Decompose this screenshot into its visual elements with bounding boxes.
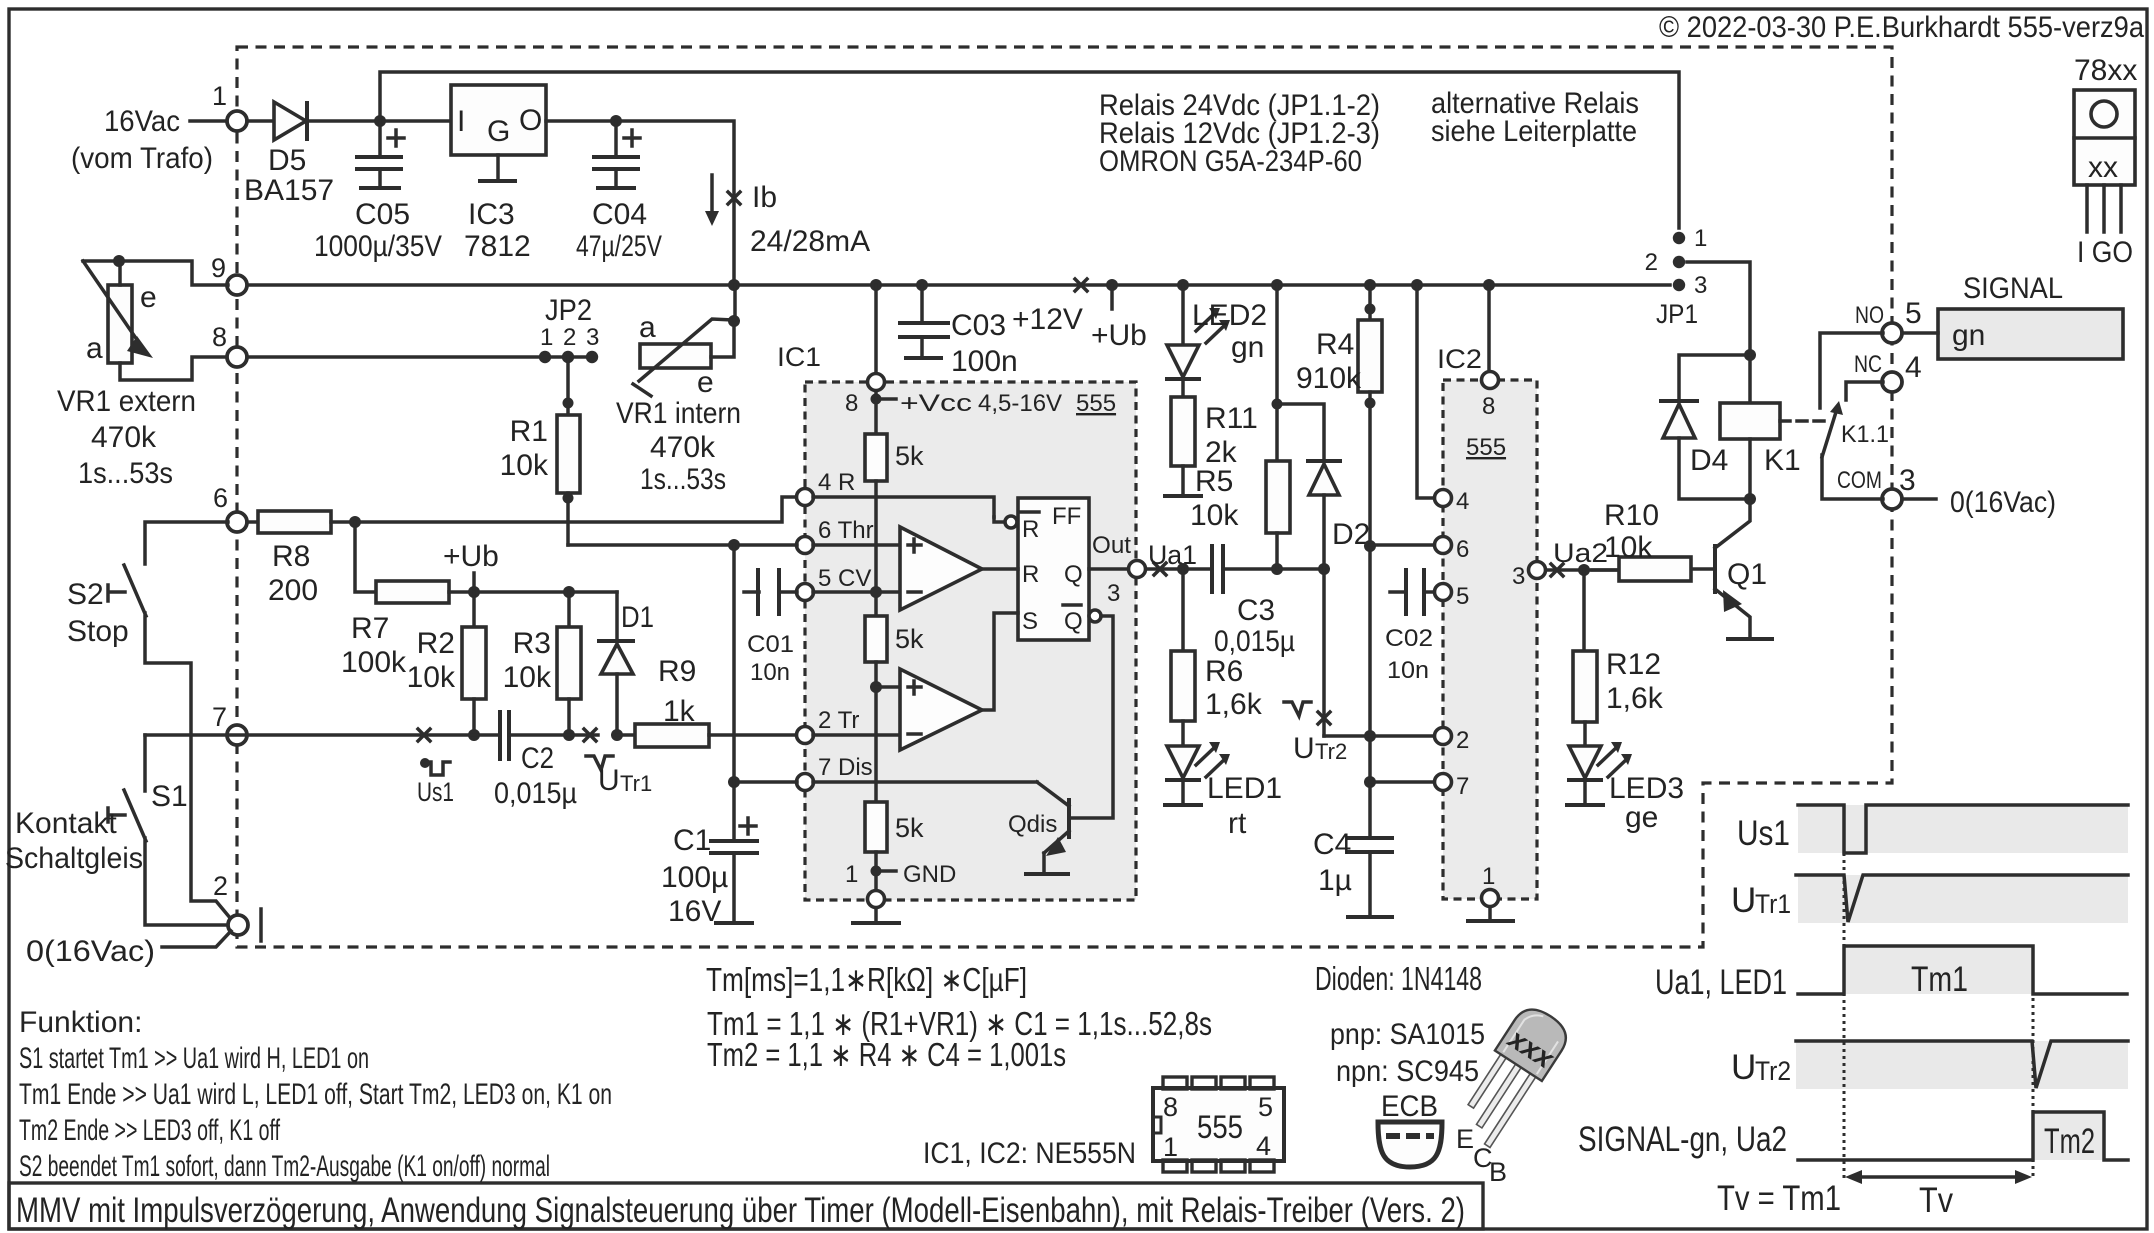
svg-text:4,5-16V: 4,5-16V [978, 390, 1062, 417]
pin 2 of IC2 [1435, 728, 1452, 745]
svg-text:Tr1: Tr1 [620, 771, 652, 796]
trace UTr1 [1796, 875, 2128, 922]
svg-text:C04: C04 [592, 198, 647, 231]
svg-text:C1: C1 [673, 824, 711, 857]
trace Ua1/LED1 [1798, 946, 2127, 994]
svg-text:C01: C01 [747, 631, 794, 658]
svg-text:I GO: I GO [2077, 236, 2133, 269]
symbol UTr2 pulse [1284, 702, 1311, 716]
svg-text:VR1 intern: VR1 intern [616, 397, 741, 430]
junction C05/top [374, 115, 386, 127]
wire COM to 0(16Vac) [1902, 497, 1936, 501]
LED3 [1569, 746, 1601, 778]
svg-text:1: 1 [845, 861, 858, 888]
ground below IC1 pin1 [874, 908, 878, 921]
svg-text:78xx: 78xx [2074, 54, 2137, 87]
svg-text:2: 2 [563, 324, 576, 351]
svg-text:R6: R6 [1205, 655, 1243, 688]
svg-text:Us1: Us1 [417, 777, 454, 807]
resistor R9 [617, 733, 635, 737]
node +12V marker [1075, 279, 1087, 291]
svg-text:10n: 10n [750, 659, 790, 686]
svg-text:Ib: Ib [752, 181, 777, 214]
terminal 2 [228, 915, 248, 935]
svg-text:a: a [86, 332, 103, 365]
arrow Tv span [1858, 1175, 2019, 1179]
terminal 9 [227, 275, 247, 295]
node UTr1 probe mark [584, 729, 596, 741]
node Us1 probe mark [418, 729, 430, 741]
capacitor C03 [920, 285, 924, 321]
junction C04 [610, 115, 622, 127]
resistor R1 [566, 357, 570, 415]
svg-text:555: 555 [1197, 1109, 1243, 1145]
svg-text:D1: D1 [621, 601, 654, 634]
resistor R5 [1275, 285, 1279, 461]
resistor R4 [1368, 285, 1372, 320]
svg-text:470k: 470k [91, 421, 157, 454]
svg-text:Tm1: Tm1 [1911, 960, 1968, 999]
svg-text:1µ: 1µ [1318, 864, 1352, 897]
svg-text:gn: gn [1952, 319, 1985, 352]
svg-text:(vom Trafo): (vom Trafo) [71, 142, 213, 175]
svg-text:1: 1 [212, 81, 227, 111]
capacitor C1 [732, 545, 736, 840]
regulator IC3 [451, 85, 546, 155]
svg-text:1000µ/35V: 1000µ/35V [314, 230, 442, 263]
svg-text:Dioden: 1N4148: Dioden: 1N4148 [1315, 960, 1482, 997]
svg-text:Ua2: Ua2 [1553, 538, 1608, 568]
svg-text:5k: 5k [895, 441, 924, 471]
svg-text:2: 2 [1645, 249, 1658, 276]
pin 2 Tr of IC1 [797, 727, 814, 744]
svg-text:0,015µ: 0,015µ [494, 777, 577, 810]
svg-text:Tm[ms]=1,1∗R[kΩ] ∗C[µF]: Tm[ms]=1,1∗R[kΩ] ∗C[µF] [706, 961, 1027, 998]
dotted time marker 1 [1843, 853, 1846, 1180]
capacitor C05 [378, 121, 382, 155]
relay coil K1 [1720, 403, 1780, 439]
svg-text:U: U [598, 764, 620, 797]
svg-text:S: S [1022, 608, 1038, 635]
node +Ub at R7 [468, 586, 480, 598]
svg-text:JP2: JP2 [545, 294, 592, 327]
svg-text:ECB: ECB [1381, 1090, 1438, 1123]
wire terminal 6 left to S2 [145, 522, 228, 564]
terminal 8 [227, 347, 247, 367]
svg-text:7: 7 [212, 702, 227, 732]
capacitor C2 [500, 712, 509, 759]
trace Us1 [1798, 805, 2128, 853]
op-amp comparator lower (IC1) [900, 669, 982, 750]
svg-text:1k: 1k [663, 695, 696, 728]
resistor R12 [1582, 570, 1586, 651]
svg-text:3: 3 [1694, 272, 1707, 299]
svg-text:S2: S2 [67, 578, 104, 611]
svg-text:+Ub: +Ub [1091, 319, 1147, 352]
title bar box [9, 1183, 1483, 1229]
pin 4 R of IC1 [797, 489, 814, 506]
svg-text:COM: COM [1837, 467, 1882, 494]
svg-text:S1: S1 [151, 780, 188, 813]
svg-text:R8: R8 [272, 540, 310, 573]
svg-text:4: 4 [1905, 351, 1922, 384]
terminal 7 [227, 725, 247, 745]
diode D2 [1277, 404, 1324, 461]
wire +12V/+Ub rail [238, 283, 1670, 287]
svg-text:555: 555 [1076, 390, 1116, 417]
svg-text:1s...53s: 1s...53s [78, 457, 173, 490]
svg-text:100µ: 100µ [661, 861, 728, 894]
svg-text:3: 3 [1512, 563, 1525, 590]
svg-text:G: G [487, 115, 510, 148]
svg-text:NO: NO [1855, 302, 1884, 329]
pin 4 of IC2 [1417, 285, 1434, 498]
svg-text:+12V: +12V [1012, 303, 1083, 336]
svg-text:R9: R9 [658, 655, 696, 688]
svg-text:R11: R11 [1205, 402, 1258, 435]
svg-text:4 R: 4 R [818, 469, 855, 496]
transistor TO-92 3D drawing [1449, 1001, 1574, 1151]
svg-text:IC3: IC3 [468, 198, 515, 231]
wire comparator2 out to S [982, 613, 1018, 710]
svg-text:C4: C4 [1313, 828, 1351, 861]
svg-text:LED1: LED1 [1207, 772, 1282, 805]
svg-text:5: 5 [1456, 583, 1469, 610]
svg-text:I: I [457, 105, 465, 138]
timing diagram gray bands [1798, 805, 2128, 853]
resistor R11 [1171, 397, 1195, 466]
resistor R3 [563, 586, 575, 598]
capacitor C04 [614, 121, 618, 155]
svg-text:6 Thr: 6 Thr [818, 517, 874, 544]
svg-text:GND: GND [903, 861, 956, 888]
svg-text:Q: Q [1064, 608, 1083, 635]
svg-text:7: 7 [1456, 773, 1469, 800]
svg-text:Out: Out [1092, 532, 1131, 559]
svg-text:470k: 470k [650, 431, 716, 464]
svg-text:siehe Leiterplatte: siehe Leiterplatte [1431, 115, 1637, 148]
svg-text:K1.1: K1.1 [1841, 421, 1889, 448]
svg-text:C05: C05 [355, 198, 410, 231]
svg-text:gn: gn [1231, 331, 1264, 364]
svg-text:5 CV: 5 CV [818, 565, 871, 592]
svg-text:npn: SC945: npn: SC945 [1336, 1055, 1479, 1088]
svg-text:C2: C2 [521, 742, 554, 775]
svg-text:e: e [697, 366, 714, 399]
diode D4 [1679, 355, 1750, 401]
op-amp comparator upper (IC1) [900, 527, 982, 610]
PCB dashed border [237, 47, 1892, 947]
wire D2 bottom to IC2 pin2 [1324, 734, 1434, 738]
svg-text:47µ/25V: 47µ/25V [576, 230, 662, 263]
trace SIGNAL-gn/Ua2 [1798, 1112, 2128, 1160]
wire to JP1 (unregulated top line) [380, 72, 1679, 228]
svg-text:1: 1 [540, 324, 553, 351]
svg-text:SIGNAL: SIGNAL [1963, 272, 2063, 305]
current arrow Ib [710, 175, 714, 212]
wire NO to gn box [1902, 331, 1938, 335]
svg-text:Funktion:: Funktion: [19, 1006, 142, 1039]
op-amp/timer IC1 555 box [805, 382, 1136, 900]
pin 6 Thr of IC1 [797, 537, 814, 554]
connector JP1 [1673, 232, 1685, 244]
svg-text:0,015µ: 0,015µ [1214, 625, 1295, 658]
pin 8 +Vcc of IC1 [874, 285, 878, 374]
node rail junction dots [728, 279, 740, 291]
wire trigger row (terminal7 to C2) [145, 733, 500, 737]
svg-text:8: 8 [1163, 1092, 1178, 1122]
wire IC3 output to C04 and down to rail [546, 121, 734, 285]
svg-text:Q: Q [1064, 561, 1083, 588]
node Ua1 [1146, 567, 1212, 571]
potentiometer VR1 intern [640, 344, 711, 368]
svg-text:E: E [1456, 1124, 1474, 1154]
svg-text:4: 4 [1256, 1131, 1271, 1161]
svg-text:+Vcc: +Vcc [900, 390, 972, 417]
svg-text:555: 555 [1466, 434, 1506, 461]
wire JP1 pin2 to relay [1687, 262, 1750, 403]
svg-text:Tm2 = 1,1 ∗ R4 ∗ C4 = 1,001s: Tm2 = 1,1 ∗ R4 ∗ C4 = 1,001s [707, 1036, 1066, 1073]
svg-text:Tr2: Tr2 [1315, 739, 1347, 764]
resistor R8 [247, 520, 258, 524]
svg-text:R4: R4 [1316, 328, 1354, 361]
svg-text:10k: 10k [503, 661, 552, 694]
svg-text:U: U [1731, 1048, 1756, 1087]
svg-text:xx: xx [2088, 151, 2118, 184]
symbol UTr1 pulse [586, 756, 613, 770]
svg-text:1: 1 [1482, 863, 1495, 890]
svg-text:5k: 5k [895, 813, 924, 843]
svg-text:rt: rt [1228, 807, 1247, 840]
svg-text:R2: R2 [417, 627, 455, 660]
LED2 [1181, 285, 1185, 345]
svg-text:0(16Vac): 0(16Vac) [1950, 486, 2056, 519]
node +Ub stub [1110, 285, 1114, 309]
svg-text:K1: K1 [1764, 444, 1801, 477]
svg-text:R7: R7 [351, 612, 389, 645]
pin 7 of IC2 [1435, 774, 1452, 791]
potentiometer VR1 extern [108, 285, 132, 363]
pin 8 of IC2 [1487, 285, 1491, 371]
wire terminal1 to D5 [247, 119, 273, 123]
svg-text:S2 beendet Tm1 sofort, dann Tm: S2 beendet Tm1 sofort, dann Tm2-Ausgabe … [19, 1150, 550, 1183]
node UTr2 probe mark [1318, 712, 1330, 724]
svg-text:3: 3 [1107, 580, 1120, 607]
wire D5 to IC3 input [306, 119, 451, 123]
svg-text:R5: R5 [1195, 465, 1233, 498]
svg-text:2: 2 [213, 871, 228, 901]
svg-text:24/28mA: 24/28mA [750, 225, 870, 258]
svg-text:e: e [140, 281, 157, 314]
svg-text:FF: FF [1052, 503, 1081, 530]
flip-flop FF box (IC1) [1018, 498, 1089, 640]
svg-text:C03: C03 [951, 309, 1006, 342]
svg-text:16V: 16V [668, 895, 721, 928]
svg-text:Tr2: Tr2 [1755, 1056, 1791, 1086]
svg-text:2 Tr: 2 Tr [818, 707, 859, 734]
wire Q to Out pin3 [1089, 567, 1128, 571]
svg-text:Ua1, LED1: Ua1, LED1 [1655, 963, 1787, 1002]
capacitor C01 [744, 590, 759, 594]
svg-text:1: 1 [1694, 225, 1707, 252]
svg-text:Tv: Tv [1919, 1181, 1953, 1220]
svg-text:C3: C3 [1237, 594, 1275, 627]
svg-text:7 Dis: 7 Dis [818, 754, 873, 781]
svg-text:Tm2: Tm2 [2044, 1122, 2095, 1161]
svg-text:10k: 10k [1604, 531, 1653, 564]
svg-text:Stop: Stop [67, 615, 129, 648]
svg-text:Qdis: Qdis [1008, 811, 1057, 838]
diode D5 [274, 102, 306, 140]
svg-text:U: U [1731, 881, 1756, 920]
svg-text:Q1: Q1 [1727, 558, 1767, 591]
LED1 [1167, 746, 1199, 778]
capacitor C3 [1212, 546, 1223, 592]
pin 3 Out of IC2 [1529, 562, 1546, 579]
pin 7 Dis of IC1 [797, 774, 814, 791]
svg-text:Tm1 Ende >> Ua1 wird L, LED1 o: Tm1 Ende >> Ua1 wird L, LED1 off, Start … [19, 1078, 612, 1111]
svg-text:R1: R1 [510, 415, 548, 448]
svg-text:1s...53s: 1s...53s [640, 463, 726, 496]
pin 5 CV of IC1 [797, 584, 814, 601]
pin 1 GND of IC1 [871, 866, 882, 877]
svg-text:+Ub: +Ub [443, 540, 499, 573]
svg-text:SIGNAL-gn, Ua2: SIGNAL-gn, Ua2 [1578, 1120, 1787, 1159]
switch S1 [143, 735, 147, 791]
svg-text:LED2: LED2 [1192, 299, 1267, 332]
svg-text:1: 1 [1163, 1132, 1178, 1162]
svg-text:ge: ge [1625, 801, 1658, 834]
svg-text:8: 8 [212, 322, 227, 352]
resistor R10 [1592, 568, 1619, 572]
svg-text:5: 5 [1258, 1092, 1273, 1122]
diode D1 [615, 592, 619, 641]
resistor R6 [1181, 569, 1185, 651]
svg-text:MMV mit Impulsverzögerung, Anw: MMV mit Impulsverzögerung, Anwendung Sig… [16, 1191, 1465, 1230]
svg-text:BA157: BA157 [244, 174, 334, 207]
resistor 5k middle (divider) [865, 616, 887, 662]
svg-text:D4: D4 [1690, 444, 1728, 477]
pin 1 of IC2 + ground [1482, 890, 1499, 907]
svg-text:R: R [1022, 516, 1039, 543]
switch S2 [124, 565, 231, 919]
DIP-8 package icon [1153, 1088, 1284, 1161]
svg-text:7812: 7812 [464, 230, 531, 263]
TO-92 bottom view [1378, 1122, 1442, 1167]
svg-text:IC1, IC2: NE555N: IC1, IC2: NE555N [923, 1137, 1136, 1170]
svg-text:10k: 10k [500, 449, 549, 482]
dotted time marker 2 [2032, 998, 2035, 1180]
svg-text:10k: 10k [407, 661, 456, 694]
svg-text:R: R [1022, 561, 1039, 588]
svg-text:5k: 5k [895, 624, 924, 654]
svg-text:3: 3 [586, 324, 599, 351]
svg-text:Ua1: Ua1 [1148, 540, 1197, 570]
transistor Q1 [1715, 499, 1750, 548]
wire 16Vac to terminal 1 [190, 119, 227, 123]
svg-text:R12: R12 [1606, 648, 1661, 681]
svg-text:VR1 extern: VR1 extern [57, 385, 196, 418]
svg-text:Tr1: Tr1 [1755, 889, 1791, 919]
svg-text:9: 9 [211, 253, 226, 283]
svg-text:© 2022-03-30 P.E.Burkhardt 555: © 2022-03-30 P.E.Burkhardt 555-verz9a [1659, 11, 2144, 44]
dashed link K1 to K1.1 [1780, 419, 1826, 423]
svg-text:2: 2 [1456, 727, 1469, 754]
trace UTr2 [1796, 1041, 2128, 1088]
svg-text:16Vac: 16Vac [104, 105, 180, 138]
resistor R7 [355, 522, 376, 592]
svg-text:OMRON G5A-234P-60: OMRON G5A-234P-60 [1099, 145, 1362, 178]
svg-text:IC2: IC2 [1437, 344, 1482, 374]
svg-text:6: 6 [1456, 536, 1469, 563]
svg-text:JP1: JP1 [1656, 299, 1698, 329]
svg-text:910k: 910k [1296, 362, 1362, 395]
svg-text:B: B [1489, 1157, 1507, 1187]
svg-text:S1 startet Tm1 >> Ua1 wird H,: S1 startet Tm1 >> Ua1 wird H, LED1 on [19, 1042, 369, 1075]
svg-text:10n: 10n [1387, 657, 1429, 684]
svg-text:O: O [519, 104, 542, 137]
wire Qbar to Qdis transistor [1089, 610, 1101, 622]
wire R4/C4 node vertical [1368, 546, 1372, 782]
resistor 5k upper (divider) [865, 434, 887, 481]
svg-text:100n: 100n [951, 345, 1018, 378]
svg-text:NC: NC [1854, 351, 1882, 378]
symbol Us1 pulse [424, 762, 450, 775]
svg-text:C02: C02 [1385, 625, 1433, 652]
svg-text:Schaltgleis: Schaltgleis [5, 842, 143, 875]
svg-text:10k: 10k [1190, 499, 1239, 532]
timer IC2 555 box [1443, 380, 1537, 899]
terminal 1 [227, 111, 247, 131]
svg-text:1,6k: 1,6k [1205, 688, 1263, 721]
wire terminal 8 to JP2 pin1 [247, 355, 592, 359]
svg-text:D5: D5 [268, 144, 306, 177]
svg-text:R10: R10 [1604, 499, 1659, 532]
svg-text:Tv = Tm1: Tv = Tm1 [1717, 1179, 1841, 1218]
svg-text:8: 8 [1482, 393, 1495, 420]
svg-text:R3: R3 [513, 627, 551, 660]
wire R8 to reset (pin 4R) [331, 497, 797, 522]
svg-text:a: a [639, 311, 656, 344]
svg-text:6: 6 [213, 483, 228, 513]
svg-text:Tm2 Ende >> LED3 off, K1 off: Tm2 Ende >> LED3 off, K1 off [19, 1114, 280, 1147]
svg-text:1,6k: 1,6k [1606, 682, 1664, 715]
svg-text:4: 4 [1456, 488, 1469, 515]
svg-text:100k: 100k [341, 646, 407, 679]
svg-text:8: 8 [845, 390, 858, 417]
wire comparator1 out to R [982, 567, 1018, 571]
resistor R2 [472, 592, 476, 627]
svg-text:5: 5 [1905, 297, 1922, 330]
svg-text:0(16Vac): 0(16Vac) [26, 935, 155, 968]
svg-text:Kontakt: Kontakt [15, 807, 117, 840]
svg-text:pnp: SA1015: pnp: SA1015 [1330, 1018, 1485, 1051]
svg-text:U: U [1293, 732, 1315, 765]
svg-text:200: 200 [268, 574, 318, 607]
terminal 6 [227, 512, 247, 532]
svg-text:IC1: IC1 [777, 342, 821, 372]
svg-text:Us1: Us1 [1737, 814, 1790, 853]
capacitor C4 [1368, 782, 1372, 838]
resistor 5k lower (divider) [865, 802, 887, 852]
pin 5 of IC2 + capacitor C02 [1435, 584, 1452, 601]
pin 6 of IC2 [1435, 537, 1452, 554]
